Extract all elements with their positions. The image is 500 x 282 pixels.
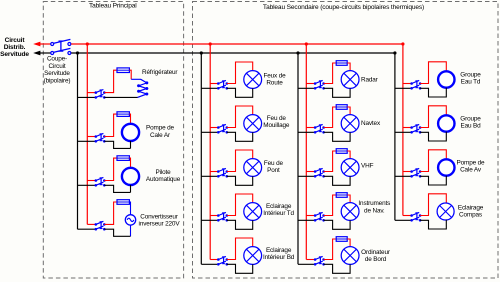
breaker Pompe de Cale Ar (bipolar thermal) bbox=[95, 133, 106, 142]
junction dot black bus col3 bbox=[296, 51, 299, 54]
svg-text:Cale Ar: Cale Ar bbox=[150, 132, 171, 139]
lamp Eclairage Compas bbox=[437, 203, 454, 220]
label: Navtex bbox=[361, 120, 381, 127]
wire black: bus to breaker (Pilote Automatique) bbox=[78, 184, 96, 186]
wire black: return to breaker (Pompe de Cale Ar) bbox=[104, 141, 130, 148]
breaker Navtex (bipolar thermal) bbox=[314, 124, 325, 133]
junction dot red bus col3 bbox=[305, 42, 308, 45]
wire black: lamp return (Instruments de Nav.) bbox=[324, 220, 351, 229]
black bus (-) column 4 vertical bbox=[394, 53, 396, 220]
wire red: bus to breaker (Eclairage Compas) bbox=[403, 215, 412, 217]
wire red: breaker to lamp (Feu de Mouillage) bbox=[227, 106, 253, 128]
red bus (+) column 4 vertical bbox=[402, 44, 404, 216]
wire red: breaker to fuse (Radar) bbox=[324, 63, 337, 84]
wire black: lamp return (Ordinateur de Bord) bbox=[324, 264, 351, 273]
black bus (-) column 2 vertical bbox=[200, 53, 202, 264]
panel box: Tableau Secondaire bbox=[193, 2, 499, 279]
wire red: bus to breaker (Radar) bbox=[306, 83, 315, 85]
svg-text:Tableau Principal: Tableau Principal bbox=[89, 3, 137, 10]
wire red: breaker to lamp (Feu de Pont) bbox=[227, 150, 253, 172]
label: Eclairage Intérieur Td bbox=[263, 203, 294, 217]
svg-text:Convertisseur: Convertisseur bbox=[140, 214, 178, 221]
wire black: load return (Pompe de Cale Av) bbox=[420, 176, 446, 185]
svg-text:Radar: Radar bbox=[361, 77, 379, 84]
fuse F Ordinateur de Bord bbox=[336, 237, 347, 242]
svg-text:Eclairage: Eclairage bbox=[266, 203, 292, 210]
wire black: return to breaker (Pilote Automatique) bbox=[104, 185, 130, 192]
black bus (-) Tableau Principal vertical bbox=[77, 53, 79, 229]
wire red: breaker to load (Groupe Eau Td) bbox=[420, 62, 446, 84]
svg-text:Eau Td: Eau Td bbox=[461, 79, 481, 86]
breaker Convertisseur inverseur 220V (bipolar thermal) bbox=[95, 221, 106, 230]
label: Eclairage Intérieur Bd bbox=[263, 247, 295, 261]
svg-text:de Bord: de Bord bbox=[365, 256, 387, 263]
svg-text:Automatique: Automatique bbox=[146, 176, 181, 183]
wire black: lamp return (Eclairage Intérieur Td) bbox=[227, 220, 253, 229]
fuse F Pilote Automatique bbox=[117, 156, 129, 161]
svg-text:Intérieur Bd: Intérieur Bd bbox=[263, 254, 295, 261]
wire red: breaker to fuse (Réfrigérateur) bbox=[104, 70, 117, 92]
svg-text:Compas: Compas bbox=[459, 212, 482, 219]
svg-text:inverseur 220V: inverseur 220V bbox=[139, 221, 181, 228]
lamp VHF bbox=[341, 159, 359, 177]
label: Feu de Pont bbox=[264, 160, 284, 174]
svg-text:Servitude: Servitude bbox=[0, 51, 29, 58]
lamp Feu de Mouillage bbox=[244, 115, 262, 133]
svg-text:Feux de: Feux de bbox=[263, 73, 286, 80]
label: Groupe Eau Bd bbox=[460, 116, 481, 130]
wire black: lamp return (Feu de Pont) bbox=[227, 176, 253, 185]
wire red: bus to breaker (Groupe Eau Bd) bbox=[403, 127, 412, 129]
junction dot red bus col2 bbox=[209, 42, 212, 45]
fuse F Navtex bbox=[336, 105, 347, 110]
wire red: breaker to load (Pompe de Cale Av) bbox=[420, 150, 446, 172]
wire red: breaker to fuse (Navtex) bbox=[324, 107, 337, 128]
red bus (+) column 3 vertical bbox=[305, 44, 307, 260]
wire: fuse to load (Pilote Automatique) bbox=[129, 158, 130, 168]
breaker Feu de Mouillage (bipolar thermal) bbox=[217, 124, 228, 133]
wire black: bus to breaker (Instruments de Nav.) bbox=[298, 219, 315, 221]
wire red: bus to breaker (Feux de Route) bbox=[210, 83, 218, 85]
wire red: breaker to fuse (Convertisseur inverseur 220V) bbox=[104, 202, 117, 224]
svg-text:Coupe-: Coupe- bbox=[47, 56, 67, 63]
wire red: bus to breaker (Eclairage Intérieur Bd) bbox=[210, 259, 218, 261]
wire black: bus to breaker (Feu de Mouillage) bbox=[201, 131, 218, 133]
breaker Feux de Route (bipolar thermal) bbox=[217, 80, 228, 89]
lamp Feu de Pont bbox=[244, 159, 262, 177]
lamp Radar bbox=[341, 71, 359, 89]
svg-text:Circuit: Circuit bbox=[48, 63, 65, 70]
label: Convertisseur inverseur 220V bbox=[139, 214, 181, 228]
wire black: load return (Groupe Eau Td) bbox=[420, 88, 446, 97]
lamp Instruments de Nav. bbox=[341, 203, 359, 221]
wire black: lamp return (Navtex) bbox=[324, 132, 351, 141]
wire red: breaker to fuse (Pilote Automatique) bbox=[104, 158, 117, 180]
panel box: Tableau Principal bbox=[43, 2, 183, 279]
wire black: bus to breaker (Groupe Eau Td) bbox=[395, 87, 412, 89]
breaker Pompe de Cale Av (bipolar thermal) bbox=[410, 168, 421, 177]
wire black: bus to breaker (Eclairage Compas) bbox=[395, 219, 412, 221]
breaker Groupe Eau Td (bipolar thermal) bbox=[410, 80, 421, 89]
lamp Navtex bbox=[341, 115, 359, 133]
svg-text:Eclairage: Eclairage bbox=[458, 205, 484, 212]
svg-text:Cale Av: Cale Av bbox=[460, 167, 482, 174]
svg-text:Feu de: Feu de bbox=[267, 115, 287, 122]
wire red: fuse to lamp (VHF) bbox=[347, 151, 350, 159]
svg-text:Pompe de: Pompe de bbox=[146, 125, 175, 132]
breaker Feu de Pont (bipolar thermal) bbox=[217, 168, 228, 177]
wire red: bus to breaker (Groupe Eau Td) bbox=[403, 83, 412, 85]
wire black: bus to breaker (Feux de Route) bbox=[201, 87, 218, 89]
fuse F Pompe de Cale Ar bbox=[117, 112, 129, 117]
wire: fuse to load (Convertisseur inverseur 220V) bbox=[129, 202, 130, 215]
svg-text:Ordinateur: Ordinateur bbox=[361, 249, 391, 256]
label: Ordinateur de Bord bbox=[361, 249, 391, 263]
svg-text:Eau Bd: Eau Bd bbox=[460, 123, 481, 130]
wire red: breaker to fuse (Ordinateur de Bord) bbox=[324, 239, 337, 260]
svg-text:VHF: VHF bbox=[361, 162, 374, 169]
wire red: fuse to lamp (Navtex) bbox=[347, 107, 350, 115]
lamp Eclairage Intérieur Td bbox=[244, 203, 262, 221]
wire red: breaker to lamp (Feux de Route) bbox=[227, 62, 253, 84]
wire black: lamp return (VHF) bbox=[324, 176, 351, 185]
breaker Réfrigérateur (bipolar thermal) bbox=[95, 90, 106, 99]
wire black: compressor return (Réfrigérateur) bbox=[104, 96, 137, 98]
red bus (+) top horizontal bbox=[71, 43, 403, 45]
red feed arrow (+) bbox=[33, 42, 51, 47]
breaker Eclairage Intérieur Bd (bipolar thermal) bbox=[217, 256, 228, 265]
label: Pilote Automatique bbox=[146, 169, 181, 183]
black bus (-) top horizontal bbox=[71, 52, 395, 54]
breaker Instruments de Nav. (bipolar thermal) bbox=[314, 212, 325, 221]
wire red: fuse to lamp (Radar) bbox=[347, 63, 350, 71]
junction dot black bus col1 bbox=[76, 51, 79, 54]
svg-text:Instruments: Instruments bbox=[358, 200, 390, 207]
wire black: lamp return (Eclairage Intérieur Bd) bbox=[227, 264, 253, 273]
wire red: breaker to fuse (Pompe de Cale Ar) bbox=[104, 114, 117, 136]
lamp Eclairage Intérieur Bd bbox=[244, 247, 262, 265]
wire: fuse to load (Pompe de Cale Ar) bbox=[129, 114, 130, 124]
lamp Ordinateur de Bord bbox=[341, 247, 359, 265]
wire red: bus to breaker (Ordinateur de Bord) bbox=[306, 259, 315, 261]
wire red: bus to breaker (Pilote Automatique) bbox=[87, 180, 96, 182]
wire red: fuse to lamp (Ordinateur de Bord) bbox=[347, 239, 350, 247]
wire black: load return (Eclairage Compas) bbox=[420, 220, 446, 229]
junction dot red bus col1 bbox=[86, 42, 89, 45]
wire red: bus to breaker (Feu de Pont) bbox=[210, 171, 218, 173]
motor Groupe Eau Bd bbox=[438, 115, 454, 131]
wire red: bus to breaker (Feu de Mouillage) bbox=[210, 127, 218, 129]
wire black: bus to breaker (Ordinateur de Bord) bbox=[298, 263, 315, 265]
wire red: bus to breaker (Navtex) bbox=[306, 127, 315, 129]
svg-text:Réfrigérateur: Réfrigérateur bbox=[142, 69, 178, 76]
wire black: lamp return (Feu de Mouillage) bbox=[227, 132, 253, 141]
red bus (+) column 2 vertical bbox=[209, 44, 211, 260]
wire black: bus to breaker (Pompe de Cale Av) bbox=[395, 175, 412, 177]
wire black: bus to breaker (Eclairage Intérieur Td) bbox=[201, 219, 218, 221]
svg-text:(bipolaire): (bipolaire) bbox=[44, 78, 71, 85]
junction dot red bus col4 corner bbox=[401, 42, 404, 45]
wire red: bus to breaker (Réfrigérateur) bbox=[87, 92, 96, 94]
fuse F VHF bbox=[336, 149, 347, 154]
svg-text:Route: Route bbox=[266, 80, 283, 87]
wire black: bus to breaker (Pompe de Cale Ar) bbox=[78, 140, 96, 142]
svg-text:Pont: Pont bbox=[267, 167, 280, 174]
fuse F Convertisseur inverseur 220V bbox=[117, 200, 129, 205]
breaker Pilote Automatique (bipolar thermal) bbox=[95, 177, 106, 186]
lamp Feux de Route bbox=[244, 71, 262, 89]
svg-text:Tableau Secondaire (coupe-circ: Tableau Secondaire (coupe-circuits bipol… bbox=[263, 4, 424, 11]
breaker Eclairage Compas (bipolar thermal) bbox=[410, 212, 421, 221]
wire black: bus to breaker (Eclairage Intérieur Bd) bbox=[201, 263, 218, 265]
wire black: bus to breaker (Radar) bbox=[298, 87, 315, 89]
label: Coupe-Circuit Servitude (bipolaire) bbox=[44, 56, 71, 85]
motor Groupe Eau Td bbox=[438, 71, 454, 87]
svg-text:Servitude: Servitude bbox=[44, 70, 70, 77]
label: Pompe de Cale Ar bbox=[146, 125, 175, 139]
AC converter: Convertisseur inverseur 220V bbox=[125, 215, 135, 225]
svg-text:Eclairage: Eclairage bbox=[266, 247, 292, 254]
label: Feux de Route bbox=[263, 73, 286, 87]
svg-text:de Nav.: de Nav. bbox=[364, 207, 385, 214]
breaker Groupe Eau Bd (bipolar thermal) bbox=[410, 124, 421, 133]
wire: load return down (Convertisseur inverseur 220V) bbox=[130, 225, 132, 236]
wire black: bus to breaker (Feu de Pont) bbox=[201, 175, 218, 177]
motor Pilote Automatique bbox=[122, 168, 139, 185]
wire red: bus to breaker (VHF) bbox=[306, 171, 315, 173]
node: Circuit Distrib. Servitude bbox=[0, 37, 29, 58]
label: Pompe de Cale Av bbox=[457, 160, 486, 174]
label: Eclairage Compas bbox=[458, 205, 484, 219]
svg-text:Mouillage: Mouillage bbox=[263, 122, 290, 129]
wire red: breaker to lamp (Eclairage Intérieur Bd) bbox=[227, 238, 253, 260]
wire: load return down (Pilote Automatique) bbox=[130, 185, 132, 192]
junction dot black bus col4 corner bbox=[393, 51, 396, 54]
wire black: load return (Groupe Eau Bd) bbox=[420, 132, 446, 141]
wire: load return down (Pompe de Cale Ar) bbox=[130, 141, 132, 148]
wire black: bus to breaker (Réfrigérateur) bbox=[78, 96, 96, 98]
breaker Radar (bipolar thermal) bbox=[314, 80, 325, 89]
wire black: bus to breaker (Navtex) bbox=[298, 131, 315, 133]
red bus (+) Tableau Principal vertical bbox=[86, 44, 88, 224]
svg-text:Pompe de: Pompe de bbox=[457, 160, 486, 167]
label: VHF bbox=[361, 162, 374, 169]
wire red: breaker to load (Eclairage Compas) bbox=[420, 194, 446, 216]
svg-text:Navtex: Navtex bbox=[361, 120, 381, 127]
wire red: breaker to load (Groupe Eau Bd) bbox=[420, 106, 446, 128]
label: Groupe Eau Td bbox=[460, 72, 481, 86]
wire black: bus to breaker (Convertisseur inverseur 220V) bbox=[78, 228, 96, 230]
svg-text:Feu de: Feu de bbox=[264, 160, 284, 167]
svg-text:Pilote: Pilote bbox=[155, 169, 171, 176]
black return arrow (-) bbox=[33, 51, 51, 56]
wire black: bus to breaker (VHF) bbox=[298, 175, 315, 177]
svg-text:Intérieur Td: Intérieur Td bbox=[263, 210, 294, 217]
wire black: lamp return (Radar) bbox=[324, 88, 351, 97]
svg-text:Circuit: Circuit bbox=[5, 37, 26, 44]
wire red: breaker to fuse (VHF) bbox=[324, 151, 337, 172]
wire red: bus to breaker (Pompe de Cale Ar) bbox=[87, 136, 96, 138]
wire red: fuse to lamp (Instruments de Nav.) bbox=[347, 195, 350, 203]
wire red: bus to breaker (Eclairage Intérieur Td) bbox=[210, 215, 218, 217]
wire red: bus to breaker (Instruments de Nav.) bbox=[306, 215, 315, 217]
wire red: fuse to compressor (Réfrigérateur) bbox=[129, 70, 131, 79]
junction dot black bus col2 bbox=[200, 51, 203, 54]
label: Radar bbox=[361, 77, 379, 84]
fuse F Réfrigérateur bbox=[117, 68, 129, 73]
svg-text:Groupe: Groupe bbox=[460, 116, 481, 123]
breaker Eclairage Intérieur Td (bipolar thermal) bbox=[217, 212, 228, 221]
black bus (-) column 3 vertical bbox=[297, 53, 299, 264]
wire black: return to breaker (Convertisseur inverseur 220V) bbox=[104, 229, 130, 236]
svg-text:Groupe: Groupe bbox=[460, 72, 481, 79]
wire red: breaker to fuse (Instruments de Nav.) bbox=[324, 195, 337, 216]
fuse F Radar bbox=[336, 61, 347, 66]
fuse F Instruments de Nav. bbox=[336, 193, 347, 198]
compressor: Réfrigérateur bbox=[131, 79, 148, 97]
breaker VHF (bipolar thermal) bbox=[314, 168, 325, 177]
wire black: lamp return (Feux de Route) bbox=[227, 88, 253, 97]
wire red: breaker to lamp (Eclairage Intérieur Td) bbox=[227, 194, 253, 216]
breaker Ordinateur de Bord (bipolar thermal) bbox=[314, 256, 325, 265]
wire black: bus to breaker (Groupe Eau Bd) bbox=[395, 131, 412, 133]
label: Feu de Mouillage bbox=[263, 115, 290, 129]
wire red: bus to breaker (Convertisseur inverseur 220V) bbox=[87, 223, 96, 225]
main switch: Coupe-Circuit Servitude (bipolaire) bbox=[51, 39, 71, 54]
svg-text:Distrib.: Distrib. bbox=[4, 44, 26, 51]
label: Instruments de Nav. bbox=[358, 200, 390, 214]
motor Pompe de Cale Ar bbox=[122, 124, 139, 141]
wire red: bus to breaker (Pompe de Cale Av) bbox=[403, 171, 412, 173]
motor Pompe de Cale Av bbox=[438, 159, 454, 175]
